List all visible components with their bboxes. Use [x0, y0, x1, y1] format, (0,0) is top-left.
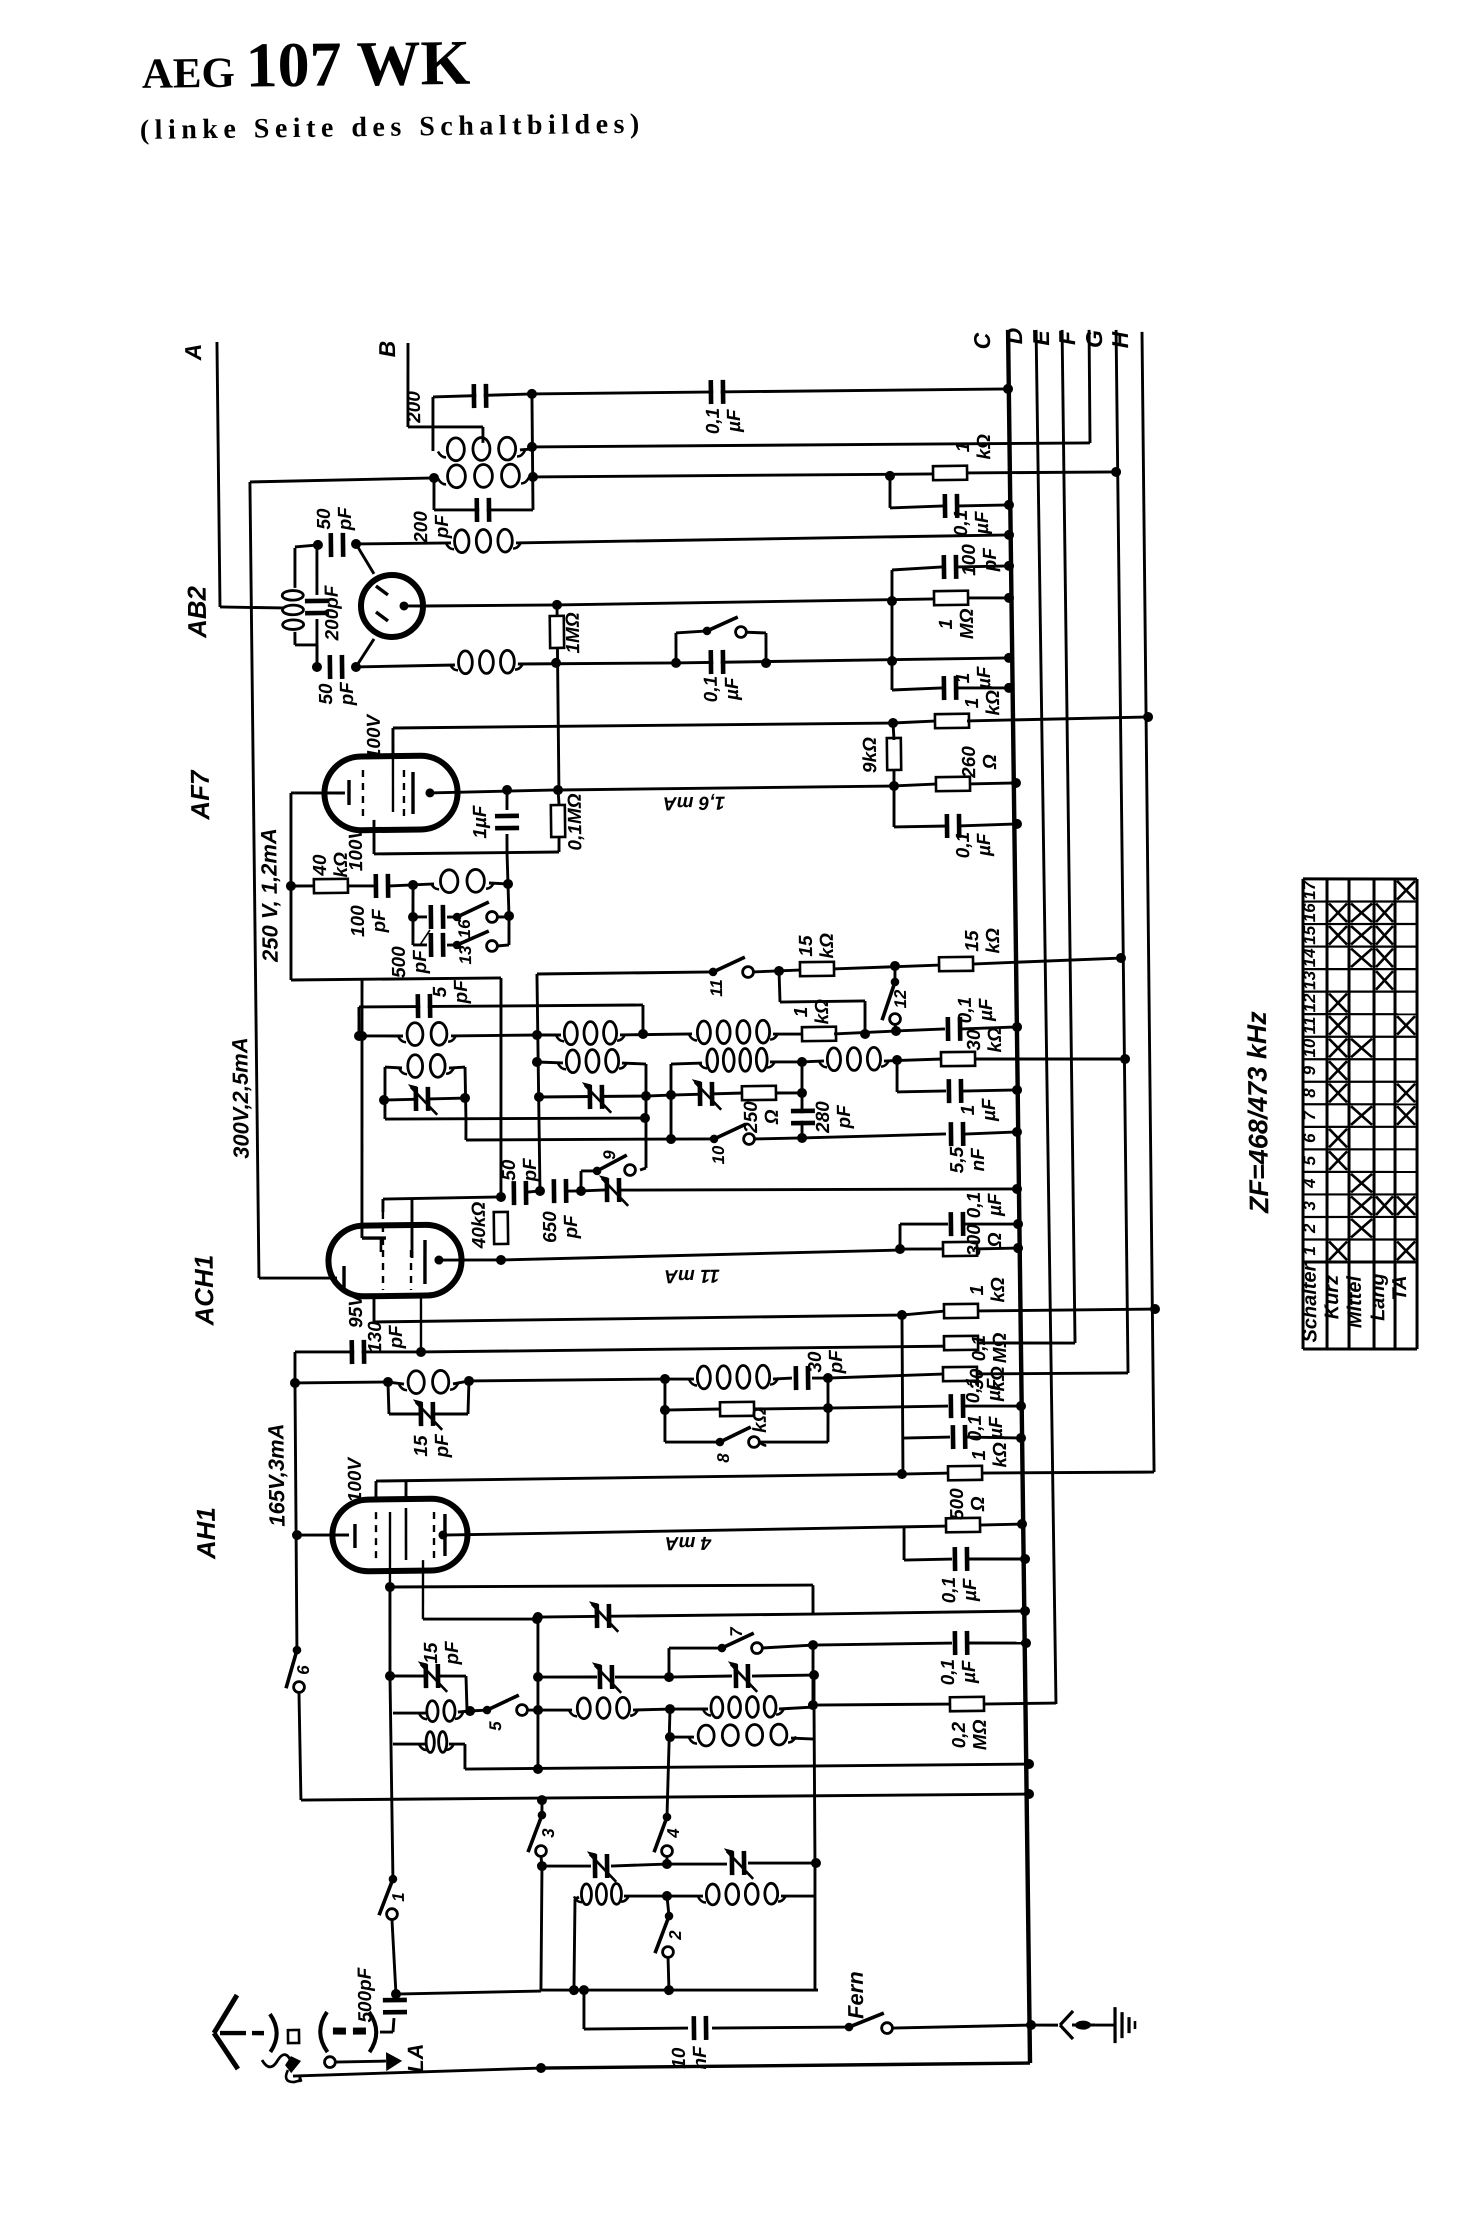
junction on C bus top [1003, 384, 1013, 394]
wire coil to vert [489, 883, 508, 884]
label 0,1uF top [703, 407, 745, 434]
wire 40k to 100pF [347, 884, 374, 888]
label 30pF [805, 1349, 847, 1375]
tube AF7 screen line [392, 728, 394, 812]
wire ACH1 top grid vert [359, 980, 366, 1238]
svg-text:100V: 100V [364, 713, 386, 759]
wire AF7 100V up [391, 728, 395, 757]
label 5 [486, 1721, 505, 1731]
junction H 1k95 [1150, 1304, 1160, 1314]
svg-text:14: 14 [1300, 948, 1319, 968]
label 50pF top [314, 506, 356, 532]
wire W seg0 [575, 1897, 579, 1899]
junction T4 x538 [533, 1764, 543, 1774]
wire B to cap 200 [408, 426, 483, 428]
wire rect bottom [385, 1116, 645, 1122]
svg-text:5: 5 [486, 1721, 505, 1731]
wire t15 leg [466, 1676, 467, 1710]
wire sw riser left [674, 633, 678, 663]
wire anode AH1 row [560, 1526, 948, 1533]
capacitor 5,5nF [949, 1122, 966, 1146]
wire combo out [828, 1406, 948, 1408]
wire c3 corner [902, 1526, 906, 1560]
wire T2 seg1 [470, 1709, 487, 1713]
junction rowB x802 [797, 1057, 807, 1067]
junction cap200/wire 0,1uF [527, 389, 537, 399]
wire 1uF bottom leg [505, 834, 508, 853]
junction W x667 [662, 1891, 672, 1901]
wire combo to 30k [828, 1374, 942, 1378]
trimmer C-Va [587, 1851, 616, 1882]
label 8 [714, 1453, 733, 1463]
junction AVC vert top [887, 596, 897, 606]
label 300Ohm [964, 1223, 1006, 1256]
wire 95V row [374, 1315, 902, 1322]
svg-text:5,5nF: 5,5nF [947, 1146, 989, 1173]
wire AF7 cathode stub [291, 792, 345, 793]
wire 1uF30 row [897, 1091, 946, 1092]
label 500Ohm [947, 1487, 989, 1520]
capacitor 50pF top [328, 533, 345, 557]
junction C 1800 [1024, 1789, 1034, 1799]
coil osc A3 [689, 1020, 778, 1044]
wire 1kH row [902, 1473, 950, 1474]
junction 1uF top [502, 785, 512, 795]
earth arrow connector [1060, 2011, 1095, 2039]
coil W-1 [574, 1883, 629, 1904]
wire 5pF left leg [357, 1007, 361, 1036]
junction 500pF-1 left [408, 912, 418, 922]
wire T3 left stub [393, 1742, 426, 1746]
wire detector out row [676, 658, 1009, 663]
coil osc C [399, 1054, 454, 1077]
resistor 15kOhm-1 [800, 962, 834, 976]
capacitor 200pF AB2 (vertical) [305, 598, 329, 615]
junction rowB x897 [892, 1055, 902, 1065]
wire 100pF to C [958, 566, 1009, 567]
label 0,1uF det [701, 675, 743, 702]
svg-text:0,1µF: 0,1µF [953, 832, 995, 859]
wire sw top left [676, 631, 707, 633]
node H label [1107, 331, 1133, 348]
label LA [403, 2043, 428, 2073]
wire 1uF top leg [505, 790, 508, 810]
trimmer 15pF-2 [418, 1661, 447, 1692]
svg-text:12: 12 [1300, 993, 1319, 1013]
wire x393 sw1 stub [391, 1878, 394, 1881]
wire bus D vertical [1036, 330, 1056, 1704]
wire rowA seg5 [773, 1032, 804, 1036]
svg-text:3: 3 [1300, 1200, 1319, 1210]
subtitle (linke Seite des Schaltbildes) [140, 109, 645, 146]
wire bus G vertical [1115, 330, 1129, 1373]
tube ACH1 envelope [328, 1224, 462, 1296]
wire sw10 to 280 [754, 1138, 802, 1139]
wire 0,1M vertical [557, 790, 561, 804]
junction 100pF/500pF [408, 880, 418, 890]
svg-text:C: C [969, 332, 995, 349]
wire 1uF row [892, 688, 942, 690]
svg-text:Fern: Fern [843, 1971, 869, 2019]
wire g1 vert [389, 1587, 391, 1676]
coil AB2 tank (vertical) [282, 590, 303, 629]
wire t15 row [390, 1675, 466, 1677]
svg-text:16: 16 [1300, 903, 1319, 923]
junction on H bus [1143, 712, 1153, 722]
junction bottom x584 [579, 1985, 589, 1995]
svg-text:AB2: AB2 [182, 585, 213, 639]
wire sw11 row [537, 972, 713, 974]
wire g3 row [423, 1618, 537, 1621]
junction 40k top [496, 1192, 506, 1202]
wire coil L1 right to node [520, 449, 532, 450]
switch S14 [703, 617, 747, 638]
junction tank bottom [312, 662, 322, 672]
wire 7k row R [753, 1407, 828, 1411]
label 0,1uF AVC [951, 509, 993, 536]
label 200pF-2 [411, 510, 453, 544]
wire trim row mid [646, 1095, 671, 1096]
junction C c2 [1016, 1433, 1026, 1443]
wire fern row L [584, 2028, 688, 2030]
label 13 [456, 945, 475, 965]
label 300V 2,5mA [227, 1037, 254, 1159]
switch Fern [845, 2013, 893, 2034]
wire AB2 tank top [295, 545, 318, 547]
junction C g1 [1020, 1606, 1030, 1616]
svg-text:F: F [1054, 330, 1080, 345]
junction sw7/x813 [808, 1640, 818, 1650]
capacitor 50pF ACH1 [511, 1181, 528, 1205]
label 5,5nF [947, 1146, 989, 1173]
svg-text:16: 16 [455, 919, 474, 939]
wire 15k link [833, 965, 940, 969]
svg-text:50pF: 50pF [499, 1157, 541, 1183]
wire rowB right part [671, 1062, 702, 1066]
svg-text:0,1µF: 0,1µF [701, 675, 743, 702]
wire ACH1 anode out [439, 1259, 501, 1260]
capacitor 1uF AF7 (vertical) [495, 814, 519, 831]
wire V seg1 [542, 1865, 591, 1866]
label 10nF [669, 2045, 711, 2070]
wire T1 seg1 [538, 1676, 597, 1677]
label 100V AF7 low [346, 825, 368, 871]
junction C fern [1026, 2020, 1036, 2030]
resistor 9kOhm [887, 738, 901, 770]
wire 250 to x802 [775, 1091, 802, 1095]
label 95V [346, 1293, 367, 1328]
capacitor 5pF [415, 994, 432, 1018]
switch S8 [715, 1427, 759, 1448]
wire sw7 row R [762, 1645, 813, 1648]
wire 15rect right leg [468, 1381, 470, 1414]
capacitor 0,1uF k [945, 814, 962, 838]
wire rowA to C [962, 1027, 1017, 1029]
wire 0,1uF300 row [900, 1223, 948, 1224]
wire rowB drop x646 [645, 1064, 648, 1168]
junction C 1M row [1004, 593, 1014, 603]
wire 9k top [893, 723, 894, 740]
resistor 1kOhm 95V [944, 1304, 978, 1318]
LA arrowhead [386, 2052, 402, 2071]
tube AF7 grid dashes [362, 769, 404, 817]
table X marks [1324, 881, 1420, 1261]
capacitor 1uF 30k [947, 1079, 964, 1103]
wire 300R row [900, 1248, 945, 1249]
label 200pF AB2 [322, 584, 344, 642]
wire bus B vertical [407, 343, 409, 427]
label 15pF-2 [421, 1640, 463, 1666]
wire cap 200pF bottom [434, 509, 533, 511]
junction rowA x865 [860, 1029, 870, 1039]
svg-text:200pF: 200pF [322, 584, 344, 642]
wire 200pF top leg [316, 545, 317, 595]
antenna coupling jacks [270, 2011, 377, 2053]
svg-text:280pF: 280pF [813, 1100, 855, 1134]
table grid (Schalter) [1297, 878, 1423, 1351]
junction 15rect R [464, 1376, 474, 1386]
wire AF7 cathode left vert [289, 793, 294, 980]
wire ACH1 g2 row [383, 1197, 501, 1199]
wire 300R to C [976, 1247, 1018, 1251]
label 280pF [813, 1100, 855, 1134]
switch S12 (vertical) [882, 978, 901, 1025]
junction rowB left [532, 1057, 542, 1067]
capacitor 1uF bus [942, 676, 959, 700]
wire 50pF2 to coil [356, 665, 455, 667]
junction 250/280 [797, 1088, 807, 1098]
coil T3-1 [689, 1724, 796, 1746]
svg-text:0,1MΩ: 0,1MΩ [565, 793, 587, 850]
wire T1 seg3 [669, 1676, 732, 1677]
svg-text:D: D [1001, 328, 1027, 345]
wire AVC cap row [890, 506, 944, 508]
junction C 1uF30 [1012, 1085, 1022, 1095]
wire 100V AH1 row [376, 1474, 902, 1481]
wire 30k2 to G [978, 1372, 1128, 1375]
wire vert 509 low [507, 916, 511, 945]
wire sw3 low [541, 1856, 542, 1866]
wire rect right drop [464, 1119, 467, 1140]
coil T2-2 [703, 1696, 784, 1718]
resistor 1MOhm bus [934, 591, 968, 605]
coil AF7 cathode [431, 869, 494, 893]
wire anode row to C [557, 599, 935, 605]
wire x902 vert [901, 1315, 904, 1474]
capacitor 500pF ant (vertical) [383, 1998, 407, 2015]
wire x897 vert [895, 1060, 899, 1092]
wire 650 row stub [581, 1190, 605, 1191]
wire T2 seg4 [670, 1707, 708, 1711]
junction AVC mid [887, 656, 897, 666]
wire T4 row [465, 1762, 1029, 1771]
wire sw riser right [764, 633, 768, 663]
wire T2 seg3 [633, 1708, 670, 1712]
wire rowB seg2 [622, 1063, 646, 1065]
tube AB2 envelope [361, 575, 424, 638]
trimmer 15pF [413, 1399, 442, 1430]
tube AH1 g3 line [422, 1560, 424, 1619]
wire AB2 coil top leg [294, 548, 295, 588]
wire osc rect top L [385, 1067, 402, 1068]
wire 260 row [894, 784, 938, 786]
wire sw6 drop [299, 1692, 301, 1800]
junction 40k left [286, 881, 296, 891]
label 6 [294, 1665, 313, 1675]
wire trim row right [671, 1093, 743, 1095]
table header Lang [1367, 1273, 1390, 1321]
wire LA ground hook [298, 2075, 301, 2082]
junction sw-cap left [671, 658, 681, 668]
svg-text:0,1µF: 0,1µF [964, 1191, 1006, 1218]
resistor 300Ohm [943, 1242, 977, 1256]
svg-text:1: 1 [1300, 1246, 1319, 1256]
wire T1 seg4 [752, 1674, 814, 1678]
wire rowA seg6 [834, 1031, 896, 1034]
label 15kOhm-1 [796, 933, 838, 959]
svg-text:0,1µF: 0,1µF [963, 1377, 1005, 1404]
resistor 15kOhm-2 [939, 957, 973, 971]
capacitor 650pF [552, 1179, 569, 1203]
node A label [180, 344, 206, 362]
capacitor 30pF [794, 1366, 811, 1390]
label 5pF [430, 979, 472, 1005]
svg-text:AF7: AF7 [185, 769, 216, 821]
wire anode row right [559, 786, 894, 790]
junction 280 low [797, 1133, 807, 1143]
junction 15rect left [290, 1378, 300, 1388]
wire C bottom corner [1028, 2061, 1032, 2065]
trimmer C-osc [408, 1084, 437, 1115]
label 1kOhm H [969, 1442, 1011, 1468]
wire 0,2M row [813, 1703, 952, 1705]
wire 1k to G bus [967, 471, 1116, 474]
label ACH1 [189, 1255, 220, 1327]
wire 15rect out [469, 1379, 665, 1382]
wire 15k2 to G [972, 958, 1121, 964]
label 0,1uF k [953, 832, 995, 859]
wire sw8 leg L [663, 1410, 667, 1442]
wire combo seg2 [773, 1378, 792, 1379]
wire rowA seg2 [451, 1035, 537, 1036]
junction x537 trim [534, 1092, 544, 1102]
junction g1 A [385, 1582, 395, 1592]
junction 15k left [774, 966, 784, 976]
label 0,1uF osc [955, 996, 997, 1023]
junction x671 low [666, 1134, 676, 1144]
svg-text:9: 9 [600, 1150, 619, 1160]
resistor 0,1MOhm bus [944, 1336, 978, 1350]
junction 1M bottom [551, 658, 561, 668]
resistor 1MOhm vertical [550, 616, 564, 648]
wire 7k row L [665, 1409, 721, 1410]
junction 40k bottom [496, 1255, 506, 1265]
junction C 300R [1013, 1243, 1023, 1253]
junction C 0,1uF300 [1013, 1219, 1023, 1229]
junction V x542 [537, 1861, 547, 1871]
junction C 1uF row [1004, 683, 1014, 693]
switch S11 [709, 957, 754, 978]
wire 15k L-drop1 [778, 971, 782, 1002]
wire AB2 coil bottom leg [293, 632, 296, 645]
node B label [374, 341, 400, 358]
svg-text:1MΩ: 1MΩ [563, 612, 585, 654]
junction 7k L [660, 1405, 670, 1415]
svg-text:(linke Seite des Schaltbildes): (linke Seite des Schaltbildes) [140, 109, 645, 146]
wire long left to coil L2 [250, 478, 434, 482]
wire 300V to cathode [259, 1277, 337, 1279]
junction x646 top [640, 1113, 650, 1123]
label ZF=468/473 kHz [1242, 1011, 1275, 1215]
wire W seg2 [667, 1894, 703, 1898]
svg-text:0,1MΩ: 0,1MΩ [969, 1332, 1011, 1363]
capacitor 0,1uF top [708, 380, 725, 404]
wire sw9 elbow1 [581, 1169, 597, 1172]
label 130pF [365, 1320, 407, 1353]
junction T3 x670 [665, 1732, 675, 1742]
junction 1800 x542 [537, 1795, 547, 1805]
wire ant cap low [393, 2018, 394, 2032]
svg-text:3: 3 [539, 1828, 558, 1838]
wire S12 bottom [894, 1024, 898, 1031]
capacitor 0,1uF c1 [948, 1394, 965, 1418]
switch S7 [717, 1633, 762, 1654]
coil 15pF rect [399, 1370, 458, 1394]
wire vert x501 [498, 978, 504, 1197]
wire rowB seg3 [770, 1060, 802, 1064]
svg-text:ACH1: ACH1 [189, 1255, 220, 1327]
wire 15rect top L [388, 1382, 404, 1384]
wire 1M vertical link [557, 605, 560, 793]
junction T1 x538 [533, 1672, 543, 1682]
label 11 [707, 979, 726, 997]
wire AVC cap to C [959, 505, 1009, 506]
wire sw10 stub [671, 1138, 714, 1139]
capacitor 0,1uF c2 [951, 1425, 968, 1449]
antenna symbol [213, 1995, 264, 2070]
wire T2 seg2 [527, 1710, 572, 1711]
label 0,1MOhm vert [565, 793, 587, 850]
label 1MOhm vert [563, 612, 585, 654]
LA input squiggle [262, 2054, 302, 2082]
wire 15rect left leg [388, 1382, 389, 1414]
svg-text:13: 13 [456, 945, 475, 965]
junction rowA x643 [638, 1029, 648, 1039]
wire sw8 row L [665, 1441, 720, 1442]
svg-text:Lang: Lang [1367, 1273, 1390, 1321]
wire fern to earth [1031, 2023, 1058, 2027]
coil osc A1 [398, 1022, 456, 1046]
wire x646 to sw9 [640, 1168, 646, 1170]
resistor 1kOhm 100V [935, 714, 969, 728]
wire LA [335, 2060, 386, 2064]
svg-text:100V: 100V [345, 1456, 367, 1502]
wire 500pF-1 right stub [447, 915, 457, 918]
wire 500pF-2 right stub [447, 943, 457, 946]
svg-text:2: 2 [666, 1930, 685, 1941]
wire 500pF-2 left stub [413, 943, 427, 946]
junction 100V/9k [888, 718, 898, 728]
wire rowA to cap [896, 1029, 945, 1031]
wire screen bottom row [374, 852, 559, 855]
svg-text:15: 15 [1300, 925, 1319, 945]
wire 5pF right leg [641, 1005, 645, 1034]
svg-text:30pF: 30pF [805, 1349, 847, 1375]
pointer 500pF [420, 930, 430, 945]
wire AF7 foot row [291, 977, 501, 980]
wire L2 left leg [432, 478, 436, 510]
svg-text:B: B [374, 341, 400, 358]
